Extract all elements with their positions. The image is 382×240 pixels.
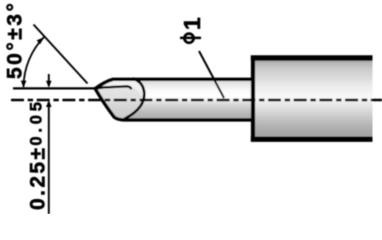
large cylinder body: [253, 58, 373, 139]
tip outline: top contour: [95, 79, 253, 88]
bevel cut face (ellipse region): [95, 79, 144, 120]
large cylinder top edge: [251, 55, 373, 60]
knife edge line across face: [95, 86, 131, 88]
tip outline: bottom contour: [95, 89, 253, 120]
svg-text:0.25±0.05: 0.25±0.05: [27, 98, 50, 210]
lower bevel-face shading: [95, 86, 142, 118]
large cylinder left edge: [251, 56, 255, 142]
svg-text:50°±3°: 50°±3°: [4, 1, 27, 79]
centerline (dash-dot): [11, 99, 382, 102]
large cylinder bottom edge: [251, 136, 373, 141]
angle dimension arc: [24, 37, 45, 88]
angled extension line (50 deg): [34, 25, 88, 84]
horizontal extension line at tip apex: [13, 87, 97, 89]
arc arrowhead top (points up-right): [37, 37, 45, 44]
dimension 0.25: upper stub with down arrow: [48, 74, 50, 86]
arc arrowhead bottom (points down): [21, 81, 27, 88]
bevel face right arc: [125, 79, 144, 119]
leader line for phi-1: [199, 51, 224, 98]
dimension 0.25: lower line with up arrow: [48, 102, 50, 214]
label phi 1 : phi symbol: [184, 34, 193, 43]
rod body (phi-1 shaft silhouette with conical tip): [95, 79, 253, 120]
svg-text:1: 1: [179, 17, 205, 30]
